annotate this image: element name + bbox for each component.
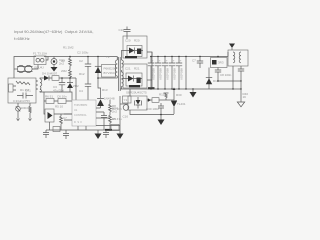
ground on return rail — [192, 89, 194, 92]
vcc drop to IC — [75, 78, 77, 100]
wire secondary top pin to D box 1 — [122, 51, 124, 59]
svg-text:C30 100n: C30 100n — [146, 107, 159, 111]
svg-text:T1: T1 — [106, 55, 110, 59]
wire D2 out join vertical — [147, 79, 152, 81]
svg-text:C21: C21 — [125, 67, 131, 71]
secondary return rail — [121, 88, 242, 90]
svg-text:C7: C7 — [63, 116, 67, 120]
L2 left winding — [233, 52, 235, 63]
svg-text:C10: C10 — [119, 28, 125, 32]
IC right pin stubs — [96, 108, 110, 118]
wire secondary mid pin to D box 2 — [122, 70, 124, 79]
wire output minus — [218, 80, 241, 82]
output ground — [237, 102, 244, 107]
diode D6 — [208, 68, 210, 90]
IC U1 box — [72, 100, 96, 126]
svg-text:R12: R12 — [79, 72, 85, 76]
wire bridge to rail — [46, 57, 48, 61]
zener ZD2 — [67, 83, 73, 88]
startup resistor R3 lower — [69, 68, 72, 78]
svg-text:C5 47u: C5 47u — [112, 117, 122, 121]
svg-text:+: + — [159, 59, 161, 63]
transformer T1 secondary winding upper — [122, 59, 124, 68]
compensation C6 box — [58, 99, 66, 104]
L2 right out down — [238, 66, 244, 102]
wire primary top pin from rail — [112, 57, 117, 61]
svg-text:680u35V: 680u35V — [152, 68, 156, 80]
bulk cap C2 on x88 — [85, 57, 91, 101]
common-mode choke L1 left coil — [17, 65, 24, 72]
ground primary mid — [97, 130, 99, 134]
thermistor RT1 drop — [29, 103, 31, 119]
extra drop C66 — [185, 57, 187, 90]
junction blob on bus — [105, 129, 112, 131]
rectifier box D1 outer — [123, 36, 147, 58]
wire choke left to input — [14, 68, 17, 70]
wire rail into L2 — [227, 52, 229, 57]
opto box U2 secondary — [128, 96, 147, 110]
svg-text:U1: U1 — [74, 108, 78, 112]
transformer T1 secondary winding lower — [122, 72, 124, 89]
isolation drop wire to primary return — [119, 96, 121, 130]
common-mode choke L1 right coil — [25, 65, 32, 72]
opto right pin to R10 — [147, 99, 152, 101]
wire primary bottom pin to drain — [112, 77, 117, 79]
svg-text:1K: 1K — [243, 95, 247, 99]
svg-text:1N4148: 1N4148 — [104, 97, 115, 101]
24V sense arrow — [173, 88, 176, 91]
svg-text:Y1: Y1 — [124, 98, 128, 102]
cap C8 below F2 — [215, 68, 221, 82]
svg-text:+: + — [166, 59, 168, 63]
aux winding top wire — [40, 78, 44, 79]
svg-text:Input 90-264Vac(47~63Hz) Outp: Input 90-264Vac(47~63Hz) Output: 24V/4A, — [14, 29, 93, 34]
output choke L2 box — [228, 50, 248, 66]
varistor RV1 arrow — [17, 119, 20, 121]
wire D1 out to rail — [147, 52, 152, 57]
primary DC rail — [44, 56, 112, 58]
primary bottom bus — [46, 129, 120, 131]
rectifier D1 inner box — [127, 46, 142, 57]
node dot aux — [69, 77, 71, 79]
svg-text:CONTROL: CONTROL — [74, 113, 87, 117]
svg-text:GBU4J: GBU4J — [34, 66, 44, 70]
aux core dashes — [36, 80, 38, 90]
snubber bar D1 — [125, 56, 137, 58]
svg-text:C4: C4 — [79, 89, 83, 93]
vcc wire — [49, 77, 76, 79]
svg-text:C6 10n: C6 10n — [57, 95, 67, 99]
svg-text:2M2: 2M2 — [61, 69, 67, 73]
svg-text:SBR20U45CT5: SBR20U45CT5 — [126, 91, 147, 95]
output cap bank C63 — [162, 57, 170, 90]
cap below bus left — [43, 130, 49, 138]
output cap bank C61 — [148, 57, 156, 90]
source return wire — [96, 125, 120, 127]
cap C13 below bus — [103, 130, 109, 138]
svg-text:C2: C2 — [79, 59, 83, 63]
rectifier D2 inner box — [126, 73, 142, 86]
svg-text:R11: R11 — [159, 93, 165, 97]
cap C14 — [101, 112, 107, 130]
wire choke to bridge — [32, 65, 38, 70]
opto U2 symbol — [136, 100, 141, 105]
drain node wire — [98, 77, 112, 79]
feedback bottom wire — [130, 110, 174, 115]
svg-text:680u35V: 680u35V — [173, 68, 177, 80]
+24V arrow above L2 — [229, 44, 235, 49]
earth ground triangle — [51, 67, 58, 72]
primary ground right — [119, 130, 121, 134]
resistor chain R8 — [109, 100, 112, 130]
node dot fb — [160, 114, 162, 116]
rectifier box D2 outer — [123, 64, 147, 88]
clamp diode D5 — [98, 57, 101, 99]
fuse / bridge box BD1 — [34, 56, 46, 65]
capacitor CX1 — [17, 93, 33, 99]
wire secondary bottom pin to return rail — [121, 88, 123, 90]
aux winding L3 — [40, 79, 42, 92]
snubber cap above D box — [124, 27, 131, 40]
primary opto U2A box — [45, 109, 54, 122]
series element box F2 — [211, 58, 228, 68]
svg-text:R20: R20 — [134, 39, 140, 43]
svg-text:D4 1N4007: D4 1N4007 — [42, 72, 58, 76]
svg-text:C8 100n: C8 100n — [220, 73, 232, 77]
label box right of D5 — [102, 65, 116, 78]
svg-text:R5 10: R5 10 — [55, 105, 63, 109]
junction blob on return rail — [148, 87, 155, 89]
small box above CY2 — [123, 96, 132, 103]
svg-text:TOP258PN: TOP258PN — [74, 103, 87, 107]
TL431 U3 — [171, 100, 177, 102]
wire return rail to opto box — [129, 89, 131, 96]
svg-text:CX1: CX1 — [25, 89, 31, 93]
opto bottom to bus — [49, 122, 51, 130]
svg-text:680u35V: 680u35V — [180, 68, 184, 80]
Y-cap earth blob CY1 — [51, 59, 57, 65]
snubber bar D2 — [129, 85, 140, 87]
wire left into opto — [44, 92, 45, 114]
svg-text:R1 2M2: R1 2M2 — [63, 46, 74, 50]
svg-text:C2 100u: C2 100u — [77, 51, 89, 55]
opto U2A transistor symbol — [48, 112, 53, 119]
output cap bank C62 — [155, 57, 163, 90]
wire to TL431 — [166, 99, 174, 101]
snubber square D1 — [137, 49, 141, 55]
cap C12 below bus — [63, 130, 69, 139]
svg-text:680u35V: 680u35V — [166, 68, 170, 80]
transformer T1 core — [119, 57, 121, 91]
svg-text:C7: C7 — [192, 59, 196, 63]
svg-text:680u35V: 680u35V — [159, 68, 163, 80]
svg-text:+: + — [180, 59, 182, 63]
Y-cap CY2 link wire — [120, 103, 128, 105]
vertical join wire x152 — [151, 52, 153, 89]
transformer T1 primary winding — [115, 57, 117, 79]
resistor R10 box — [152, 98, 159, 103]
compensation R6 box — [46, 99, 54, 104]
startup resistor R2 upper — [69, 57, 72, 69]
node dot rail x70 — [69, 56, 71, 58]
svg-text:C20: C20 — [125, 39, 131, 43]
resistor R11 vertical — [164, 93, 169, 100]
node dot aux2 — [61, 77, 63, 79]
L2 left out down to return — [232, 66, 234, 89]
thermistor RT1 arrow — [29, 119, 32, 121]
diode D1 — [129, 48, 135, 54]
bias diode D3 on drain line — [97, 99, 104, 106]
svg-text:R2: R2 — [61, 59, 65, 63]
svg-text:f=65KHz: f=65KHz — [14, 36, 30, 41]
node dot rail x108 — [97, 56, 99, 58]
resistor R4 box — [52, 76, 59, 81]
wire top-left from line input up to fuse — [14, 57, 36, 79]
L2 right winding — [239, 52, 241, 63]
snubber square D2 — [137, 78, 141, 84]
vcc cap C3 — [59, 78, 65, 92]
svg-text:R13: R13 — [102, 88, 108, 92]
svg-text:D S F: D S F — [74, 120, 82, 124]
cap C11 — [158, 103, 164, 115]
diode D2 — [128, 76, 134, 82]
svg-text:BYV26C: BYV26C — [104, 71, 116, 75]
secondary output rail — [150, 56, 228, 58]
compensation wire — [44, 100, 66, 102]
svg-text:R6 51: R6 51 — [45, 95, 53, 99]
svg-text:+: + — [152, 59, 154, 63]
node dot rail x88 — [87, 56, 89, 58]
output cap bank C64 — [169, 57, 177, 90]
feedback ground — [160, 115, 162, 120]
fb diode — [148, 98, 151, 102]
wire opto to IC — [54, 113, 72, 115]
resistor R1 discharge (diagonal zigzag) — [16, 81, 30, 85]
varistor RV1 drop — [16, 107, 21, 112]
svg-text:TL431: TL431 — [177, 102, 186, 106]
svg-text:P6KE200: P6KE200 — [104, 67, 117, 71]
small box on bus — [53, 127, 60, 132]
svg-text:+: + — [173, 59, 175, 63]
small cap C7 — [197, 57, 203, 69]
resistor R5 vertical — [60, 114, 63, 130]
CY2 circle — [123, 105, 129, 111]
aux diode D4 — [44, 76, 49, 81]
connector J1 AC input — [9, 84, 14, 92]
svg-text:0.33uF/275V: 0.33uF/275V — [13, 99, 30, 103]
svg-text:R30: R30 — [176, 93, 182, 97]
IC bottom pins — [78, 126, 86, 130]
IC left pin stubs — [64, 101, 72, 120]
svg-text:R21: R21 — [134, 67, 140, 71]
svg-text:C16: C16 — [123, 115, 129, 119]
svg-text:F1 T3.15A: F1 T3.15A — [33, 52, 47, 56]
choke core bars — [17, 67, 33, 72]
aux bottom wire — [40, 91, 72, 100]
svg-text:3R3: 3R3 — [218, 61, 224, 65]
output cap bank C65 — [176, 57, 184, 90]
small box R7 on bus — [111, 125, 119, 131]
svg-text:R8 20K: R8 20K — [112, 107, 122, 111]
EMI input box — [8, 78, 36, 103]
svg-text:10D471: 10D471 — [21, 106, 32, 110]
junction dots — [150, 56, 241, 90]
